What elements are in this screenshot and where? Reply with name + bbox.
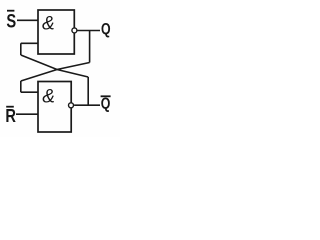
wire: Q feedback diagonal to lower-left [21, 63, 90, 82]
nand gate U1 (top) body [38, 10, 74, 54]
wire: U2 output to Q-bar label [74, 104, 100, 106]
wire: Q-bar feedback into U1 pin 2 [21, 42, 38, 44]
output label Q-bar [101, 95, 111, 112]
wire: Q feedback tap vertical [89, 31, 91, 63]
wire: Q-bar feedback tap vertical [87, 77, 89, 105]
wire: U1 output to Q label [77, 30, 100, 32]
nand gate U1 inversion bubble [72, 28, 77, 33]
wire: Q feedback left vertical [20, 81, 22, 92]
input label R-bar [5, 105, 16, 126]
wire: Q-bar feedback left vertical [20, 43, 22, 55]
svg-text:Q: Q [101, 96, 111, 113]
wire: R-bar input to U2 pin 2 [16, 113, 38, 115]
svg-text:&: & [42, 14, 55, 35]
svg-text:Q: Q [101, 21, 111, 38]
input label S-bar [6, 10, 16, 33]
nand gate U2 inversion bubble [69, 103, 74, 108]
svg-text:&: & [42, 86, 55, 107]
svg-text:R: R [5, 105, 16, 126]
wire: Q feedback into U2 pin 1 [21, 91, 38, 93]
nand gate U2 (bottom) body [38, 82, 71, 133]
wire: S-bar input to U1 pin 1 [17, 19, 38, 21]
background [0, 0, 120, 137]
wire: Q-bar feedback diagonal to upper-left [21, 55, 88, 77]
svg-text:S: S [6, 11, 16, 32]
